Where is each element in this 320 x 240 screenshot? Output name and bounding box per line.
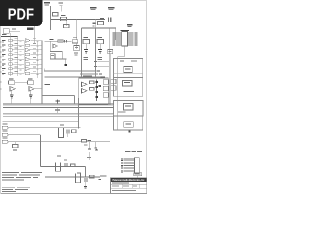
box2 label text: [124, 91, 135, 92]
wire vertical from top label: [50, 6, 52, 30]
wire from IC pin down: [123, 46, 125, 57]
mixer block outline: [79, 78, 109, 105]
wire driver2 to rail: [34, 88, 42, 90]
ground dark dot: [64, 64, 67, 66]
title block outline: [111, 178, 147, 194]
IC U201 top pin marks: [121, 30, 130, 31]
power label +15V (left): [90, 7, 97, 8]
wire rail x=10.6: [10, 33, 12, 76]
wire vertical x=50.1: [49, 41, 51, 51]
channel stage row 7: [2, 67, 6, 70]
ground stub below box4: [128, 130, 130, 132]
channel filter box top left: [3, 29, 9, 34]
wire horiz y=51.5: [50, 51, 62, 53]
node text above IC: [127, 24, 133, 25]
transistor dot y=82: [95, 81, 98, 83]
loop L3: [76, 174, 81, 183]
title block cells: [111, 187, 147, 189]
output module box 1: [114, 59, 143, 78]
channel stage row 4: [2, 53, 6, 56]
op-amp stage row 1: [25, 39, 30, 43]
wire rail x=81.5: [81, 28, 83, 78]
capacitor C51 on bus: [55, 110, 60, 111]
under-badge net marks: [33, 26, 35, 44]
signal input wires to mixer block: [44, 70, 96, 72]
capacitor stage C212: [97, 57, 102, 58]
title block divider: [111, 183, 147, 185]
connector J10 label: [125, 151, 131, 152]
channel stage row 3: [2, 48, 6, 51]
transistor Q301 cluster: [72, 40, 78, 43]
resistor R202 below: [64, 25, 70, 28]
ground symbol below Q201: [84, 49, 88, 50]
driver drop stubs to bus: [11, 99, 13, 104]
channel stage row 1: [2, 39, 6, 42]
wire y=95.5 feed: [42, 95, 75, 97]
title block header bar: [111, 178, 147, 182]
svg-text:Peterson Audio Electronics, In: Peterson Audio Electronics, Inc: [113, 178, 146, 182]
input jack J1: [2, 126, 9, 129]
wire between drivers: [15, 82, 28, 84]
wire vertical feed to output boxes: [117, 57, 119, 130]
junction hooks left end: [43, 69, 45, 72]
left margin net labels: [0, 41, 1, 44]
input jack J3: [2, 140, 9, 143]
wire y=121: [3, 120, 79, 122]
wire vertical x=62.3: [61, 52, 63, 60]
op-amp A301: [53, 44, 58, 48]
mixer block label: [83, 75, 92, 76]
driver stage 2: [28, 81, 34, 85]
ground bottom stage B: [85, 182, 87, 186]
wire input 1: [9, 127, 81, 129]
label R301: [50, 39, 54, 40]
wire vertical x=65.6 with ground: [65, 59, 67, 64]
op-amp IC U201 (DIP) body: [122, 32, 128, 47]
resistor R301 inline: [58, 40, 63, 42]
wire drop x=115.8 to IC: [115, 28, 117, 40]
IC U201 pins left/right: [116, 32, 122, 34]
wire rail x=37.2: [36, 41, 38, 79]
transistor dot y=87: [95, 86, 98, 88]
wire stub connector to title block: [136, 176, 138, 178]
relay K2 inside box3: [124, 104, 134, 111]
block right cell row3: [103, 93, 108, 97]
svg-text:PDF: PDF: [8, 7, 34, 24]
capacitor C71: [65, 163, 66, 167]
title block bottom row: [112, 190, 136, 191]
wire rail x=95.5: [95, 28, 97, 78]
wire vertical x=76.5 down to left block: [76, 19, 78, 40]
bus band 2 (signal bus): [3, 112, 114, 114]
wire rail x=110 (double): [108, 28, 110, 105]
ladder marks: [99, 77, 102, 79]
ground symbol below Q202: [98, 49, 102, 50]
detector cluster D5: [82, 140, 87, 143]
resistor network in block: [90, 81, 95, 84]
capacitor stage C211: [83, 57, 88, 58]
resistor R72: [90, 175, 95, 178]
op-amp A1 in block: [82, 82, 88, 87]
speaker terminal label box4: [124, 122, 133, 128]
block right cell row2: [103, 86, 108, 90]
op-amp stage row 3: [25, 48, 30, 52]
capacitor C61: [67, 130, 68, 134]
connector J10 tail box: [134, 173, 142, 176]
label VR1: [45, 84, 51, 85]
driver stage 1: [9, 81, 15, 85]
resistor R201 (top left cluster): [53, 13, 59, 17]
bus band 1 (power rails): [3, 103, 114, 105]
crystal Y1 top middle: [59, 3, 64, 4]
bus junction component x=57: [57, 100, 59, 105]
channel stage row 2: [2, 44, 6, 47]
relay box K301: [74, 46, 79, 51]
channel stage row 5: [2, 58, 6, 61]
connector J10 pins: [124, 158, 135, 160]
capacitor C202: [108, 18, 109, 23]
marks below K301: [74, 52, 78, 53]
node label right of cluster: [95, 149, 98, 152]
wire rail x=17.6: [17, 37, 19, 76]
wire input 3: [9, 141, 110, 143]
output module box 4: [114, 116, 143, 130]
resistor R71: [71, 164, 76, 167]
capacitor C72: [85, 178, 86, 182]
revision block (very bottom left): [2, 186, 15, 189]
filter box F301: [50, 54, 55, 59]
resistor R61: [72, 130, 77, 133]
capacitor C301 inline: [64, 40, 65, 42]
capacitor C201 inline: [61, 17, 67, 20]
wire stub x=89.5 down: [88, 152, 90, 160]
wire vertical x=40.5: [40, 135, 42, 167]
ferrite loop L1: [59, 128, 64, 138]
transistor dot y=97: [95, 96, 98, 98]
test point TP1: [96, 149, 98, 151]
column of trim pots x=111-116: [111, 79, 116, 84]
output module box 2: [114, 78, 143, 97]
wire rail x=24.2: [23, 41, 25, 74]
wire junction drop x=66: [65, 19, 67, 26]
PDF badge: [0, 0, 43, 26]
wire dark y=36.5: [1, 36, 18, 38]
label left of title block: [100, 175, 107, 176]
loop L2: [56, 163, 61, 172]
op-amp stage row 7: [25, 67, 30, 71]
wire horiz y=59: [50, 58, 66, 60]
wire bottom stage A: [41, 166, 86, 168]
block right cell row1: [103, 80, 108, 84]
input filter cluster: [13, 145, 19, 148]
channel stage row 8: [2, 72, 6, 75]
wire input 2: [9, 134, 41, 136]
op-amp A2 in block: [82, 89, 88, 94]
wire drop x=85.5: [85, 167, 87, 177]
transistor chain x=96.5: [96, 80, 98, 102]
power label -15V (right): [108, 7, 115, 8]
transistor stage Q201: [83, 40, 90, 44]
transistor stage Q202: [97, 40, 104, 44]
page border frame: [1, 1, 147, 194]
wire rail x=42: [41, 41, 43, 105]
zener diode on rail x=110: [108, 50, 113, 54]
wire stub x=95.5: [95, 19, 97, 28]
ground below driver 2: [29, 95, 33, 96]
input jack J2: [2, 133, 9, 136]
transistor dot y=92: [95, 91, 98, 93]
output module box 3: [114, 101, 144, 117]
ladder stub y=61.5: [98, 61, 110, 63]
transformer T1 inside box2: [123, 81, 133, 87]
wire vertical x=78.5 down: [78, 98, 80, 129]
ground below driver 1: [10, 95, 14, 96]
diode D201 cluster: [93, 23, 96, 25]
op-amp stage row 5: [25, 57, 30, 61]
wire bottom stage B: [45, 176, 100, 178]
connector J10 body: [135, 158, 140, 173]
ladder stub y=66.5: [98, 66, 110, 68]
channel stage row 6: [2, 62, 6, 65]
notes block (bottom left): [2, 171, 19, 174]
relay K1 inside box1: [124, 67, 133, 73]
wire net y=41.2: [45, 40, 72, 42]
box1 top components: [120, 61, 124, 62]
wire top horizontal net: [51, 19, 106, 21]
wire rail right horizontal y=28: [82, 27, 117, 29]
